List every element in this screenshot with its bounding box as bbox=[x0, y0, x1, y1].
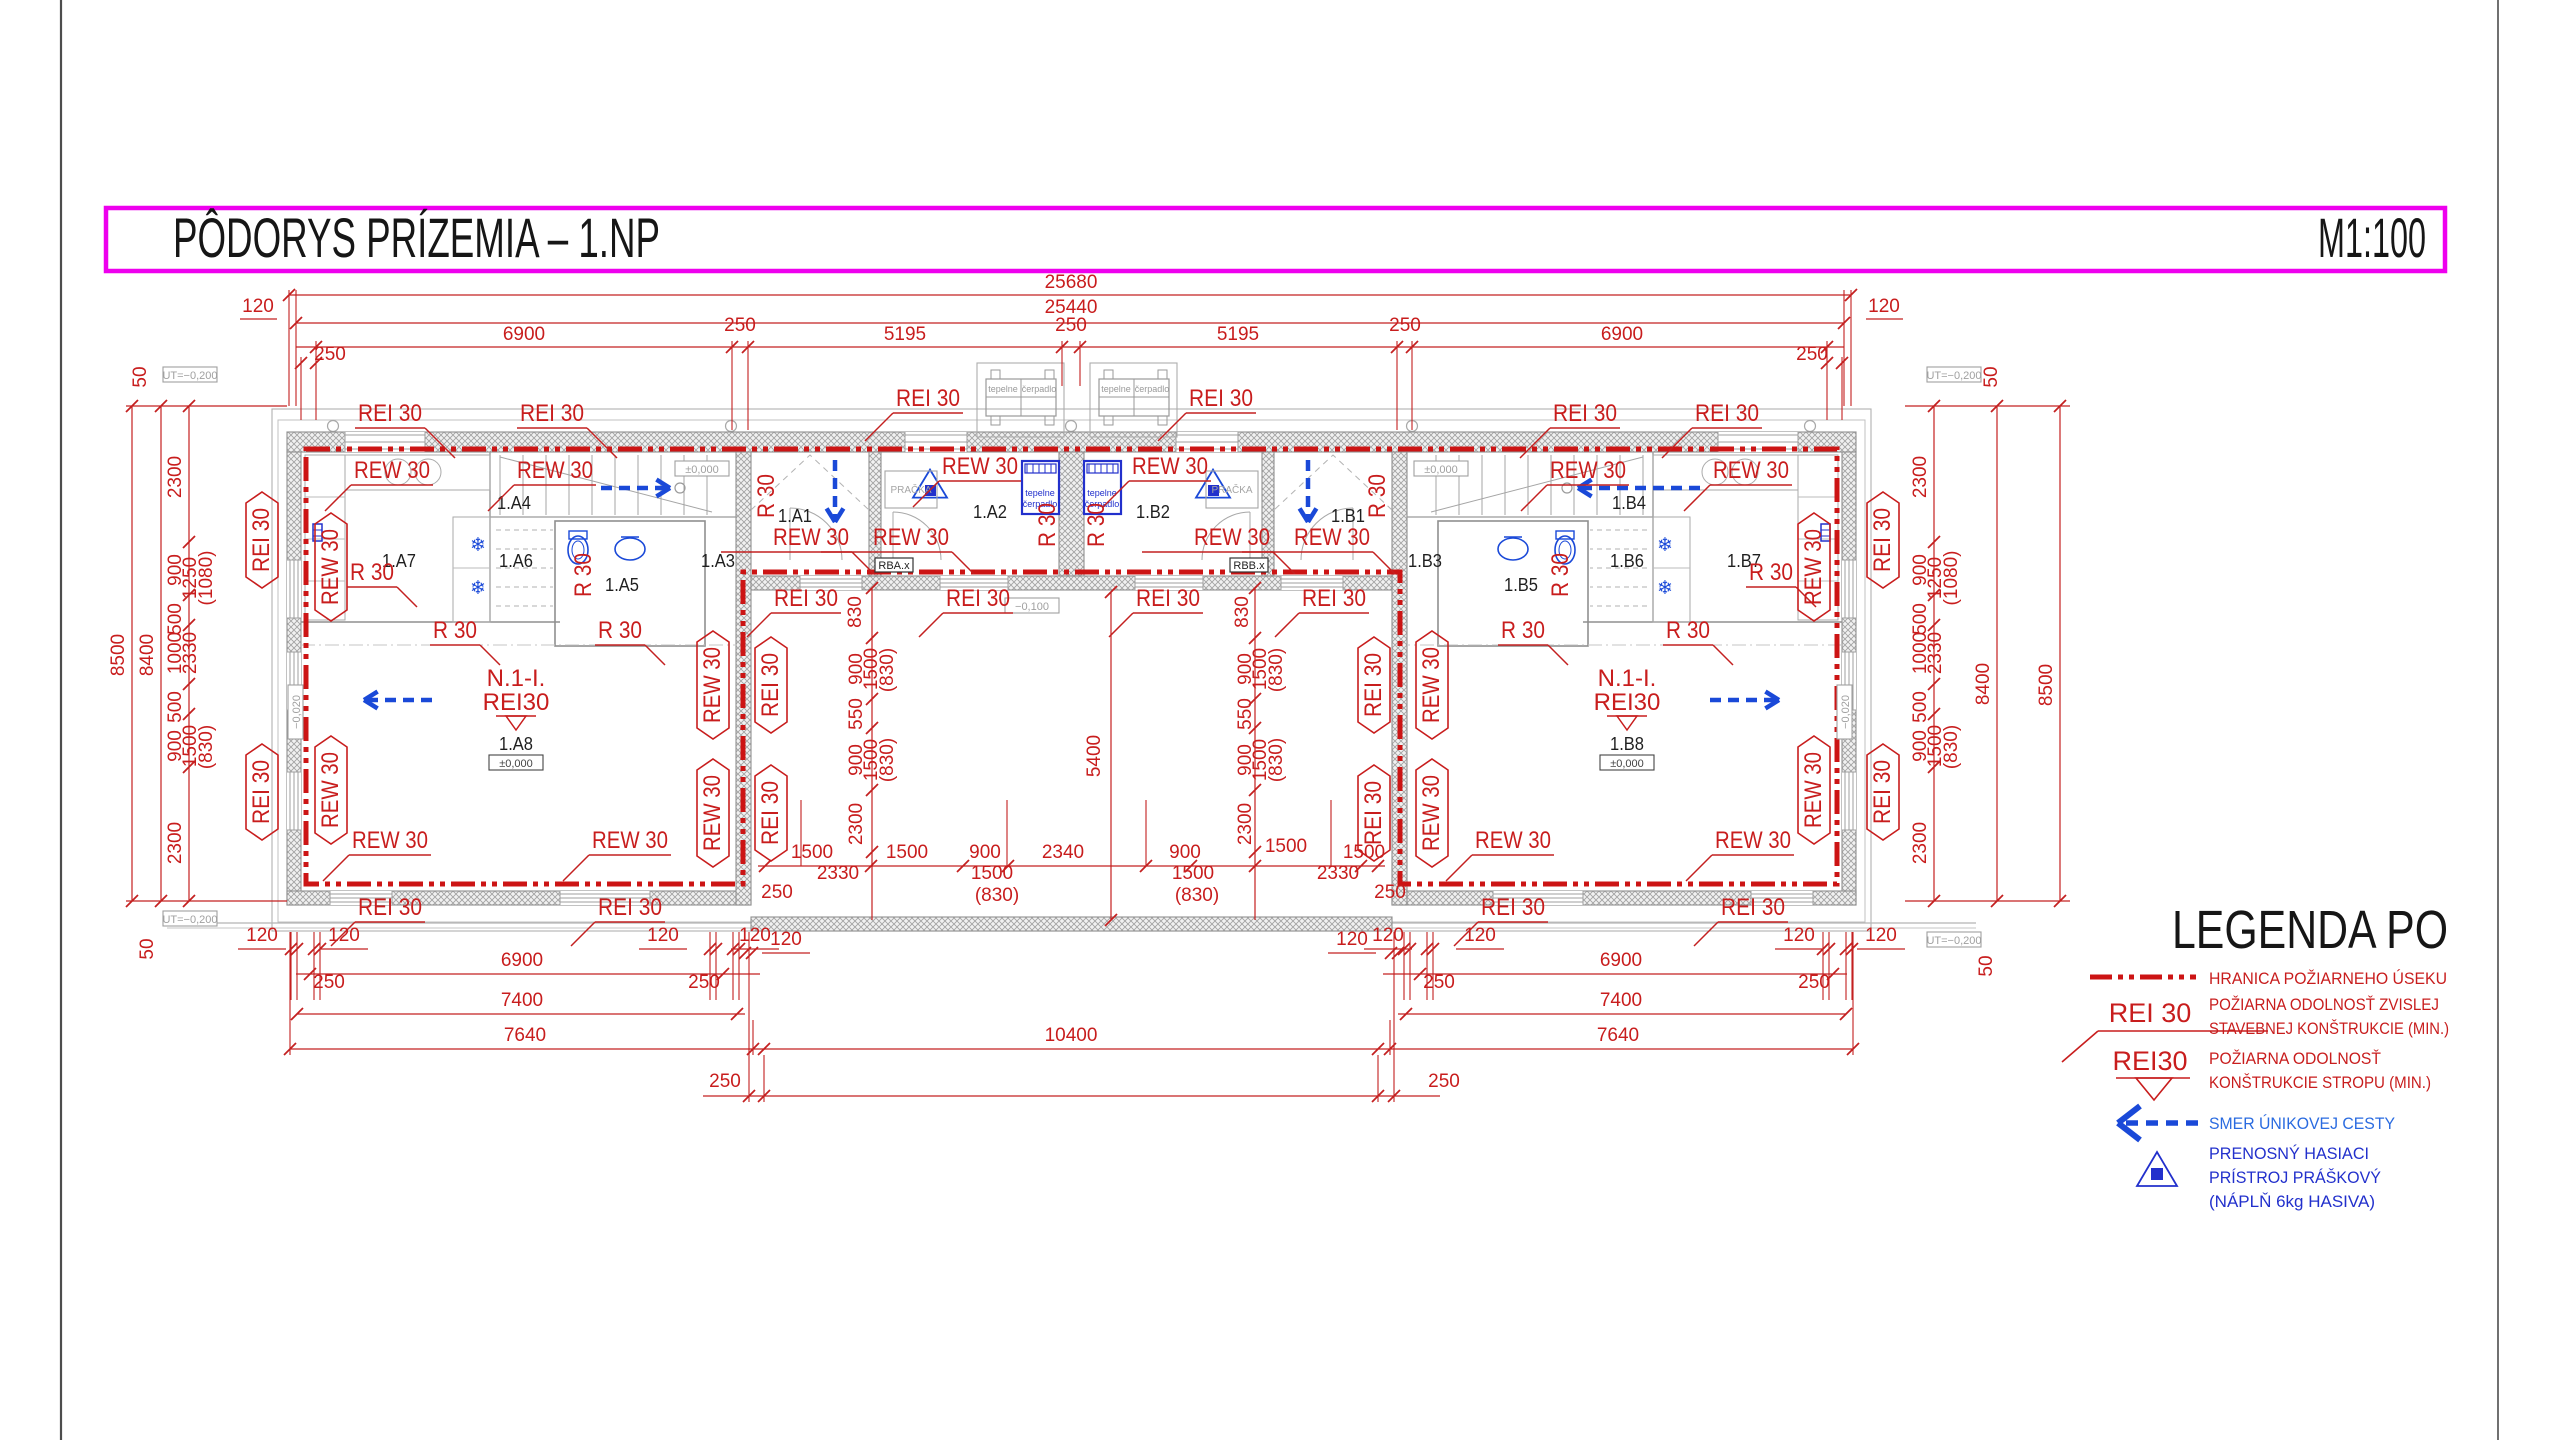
svg-text:PRAČKA: PRAČKA bbox=[1211, 483, 1252, 496]
svg-text:8400: 8400 bbox=[1973, 663, 1994, 705]
svg-text:1.B1: 1.B1 bbox=[1331, 506, 1365, 526]
svg-text:2300: 2300 bbox=[1910, 822, 1931, 864]
level box entry A rotated bbox=[288, 685, 303, 739]
svg-text:REI 30: REI 30 bbox=[248, 508, 275, 572]
svg-text:REI 30: REI 30 bbox=[358, 400, 422, 427]
washbasin (blue) bbox=[1498, 538, 1528, 560]
extinguisher symbol bbox=[913, 470, 947, 498]
svg-text:(830): (830) bbox=[196, 725, 217, 769]
svg-text:REI30: REI30 bbox=[1594, 689, 1661, 716]
unit A south windows bbox=[330, 891, 392, 905]
svg-text:1.A3: 1.A3 bbox=[701, 551, 735, 571]
svg-text:250: 250 bbox=[314, 344, 346, 365]
svg-text:250: 250 bbox=[761, 882, 793, 903]
fire compartment boundary (dash-dot-dot) bbox=[306, 449, 1837, 884]
svg-text:250: 250 bbox=[1798, 972, 1830, 993]
RBA.x box bbox=[875, 558, 913, 572]
door arc 1.B2 bbox=[1202, 512, 1250, 560]
svg-text:−0,020: −0,020 bbox=[291, 695, 303, 729]
svg-text:R 30: R 30 bbox=[1501, 617, 1545, 644]
svg-text:550: 550 bbox=[1235, 698, 1256, 730]
svg-text:REI 30: REI 30 bbox=[1869, 760, 1896, 824]
partition 1.A1 | 1.A2 bbox=[869, 452, 881, 576]
svg-text:250: 250 bbox=[313, 972, 345, 993]
svg-text:UT=−0,200: UT=−0,200 bbox=[1926, 935, 1981, 947]
svg-text:REW 30: REW 30 bbox=[1800, 752, 1827, 828]
svg-text:10400: 10400 bbox=[1045, 1025, 1098, 1046]
svg-text:REW 30: REW 30 bbox=[1715, 827, 1791, 854]
kitchen tall unit bbox=[305, 455, 345, 620]
svg-text:1500: 1500 bbox=[791, 842, 833, 863]
svg-text:REW 30: REW 30 bbox=[699, 647, 726, 723]
svg-text:REI30: REI30 bbox=[2112, 1046, 2187, 1076]
svg-text:RBA.x: RBA.x bbox=[878, 560, 910, 572]
svg-text:500: 500 bbox=[1910, 691, 1931, 723]
bottom wall unit B bbox=[1392, 891, 1856, 905]
svg-text:REW 30: REW 30 bbox=[317, 752, 344, 828]
right exterior wall bbox=[1842, 452, 1856, 905]
svg-text:N.1-I.: N.1-I. bbox=[1598, 665, 1657, 692]
svg-text:REI 30: REI 30 bbox=[757, 781, 784, 845]
svg-text:1.B3: 1.B3 bbox=[1408, 551, 1442, 571]
legend item 4: escape route bbox=[2124, 1120, 2198, 1126]
escape arrow living B bbox=[1710, 698, 1779, 703]
svg-text:120: 120 bbox=[246, 925, 278, 946]
svg-text:250: 250 bbox=[1389, 315, 1421, 336]
right page border line bbox=[2497, 0, 2499, 1440]
door arc 1.B1 bbox=[1301, 508, 1353, 560]
svg-text:REI 30: REI 30 bbox=[248, 760, 275, 824]
svg-text:REI 30: REI 30 bbox=[1553, 400, 1617, 427]
wall between unit A and middle bbox=[736, 452, 751, 905]
svg-text:2330: 2330 bbox=[1317, 863, 1359, 884]
svg-text:830: 830 bbox=[845, 596, 866, 628]
svg-text:8500: 8500 bbox=[2036, 664, 2057, 706]
svg-text:REI 30: REI 30 bbox=[1136, 585, 1200, 612]
svg-text:PRENOSNÝ HASIACI: PRENOSNÝ HASIACI bbox=[2209, 1144, 2369, 1163]
door arc 1.A2 bbox=[893, 512, 941, 560]
svg-text:1500: 1500 bbox=[971, 863, 1013, 884]
level box entry B rotated bbox=[1837, 685, 1852, 739]
middle south wall doors bbox=[800, 576, 862, 590]
svg-text:−0,100: −0,100 bbox=[1015, 601, 1049, 613]
living room axis dashline bbox=[1407, 644, 1842, 646]
svg-text:2330: 2330 bbox=[180, 632, 201, 674]
escape arrow 1.A1 down bbox=[833, 460, 838, 522]
top wall windows bbox=[345, 432, 425, 452]
svg-text:(NÁPLŇ 6kg HASIVA): (NÁPLŇ 6kg HASIVA) bbox=[2209, 1192, 2375, 1211]
extinguisher symbol bbox=[1196, 470, 1230, 498]
svg-text:1.B2: 1.B2 bbox=[1136, 502, 1170, 522]
svg-text:R 30: R 30 bbox=[753, 474, 780, 518]
kitchen counter + sink bbox=[1653, 455, 1798, 490]
svg-text:50: 50 bbox=[1981, 366, 2002, 387]
svg-text:HRANICA POŽIARNEHO ÚSEKU: HRANICA POŽIARNEHO ÚSEKU bbox=[2209, 969, 2447, 988]
svg-text:6900: 6900 bbox=[501, 950, 543, 971]
svg-text:REI 30: REI 30 bbox=[774, 585, 838, 612]
svg-text:REW 30: REW 30 bbox=[873, 524, 949, 551]
svg-text:REI 30: REI 30 bbox=[1360, 653, 1387, 717]
svg-text:250: 250 bbox=[1796, 344, 1828, 365]
svg-text:REI 30: REI 30 bbox=[598, 894, 662, 921]
fridge box bbox=[453, 517, 490, 622]
svg-text:830: 830 bbox=[1232, 596, 1253, 628]
fridge box bbox=[1653, 517, 1690, 622]
dim 10400 bbox=[764, 1048, 1378, 1050]
svg-text:1500: 1500 bbox=[1265, 836, 1307, 857]
kitchen counter + sink bbox=[345, 455, 490, 490]
svg-text:900: 900 bbox=[969, 842, 1001, 863]
svg-text:2300: 2300 bbox=[846, 803, 867, 845]
wall between unit B and middle bbox=[1392, 452, 1407, 905]
svg-text:REW 30: REW 30 bbox=[354, 457, 430, 484]
svg-text:50: 50 bbox=[137, 938, 158, 959]
svg-text:120: 120 bbox=[1336, 929, 1368, 950]
toilet (blue) bbox=[568, 536, 588, 564]
svg-text:REI 30: REI 30 bbox=[358, 894, 422, 921]
svg-text:R 30: R 30 bbox=[598, 617, 642, 644]
svg-text:2340: 2340 bbox=[1042, 842, 1084, 863]
heat pump pad bbox=[977, 363, 1064, 437]
svg-text:tepelne: tepelne bbox=[1087, 488, 1117, 498]
svg-text:500: 500 bbox=[165, 691, 186, 723]
electric panel A (blue) bbox=[313, 524, 322, 541]
svg-text:REW 30: REW 30 bbox=[942, 453, 1018, 480]
left page border line bbox=[60, 0, 62, 1440]
svg-text:(830): (830) bbox=[1175, 885, 1219, 906]
svg-text:±0,000: ±0,000 bbox=[499, 758, 533, 770]
terrace edge full width bbox=[167, 922, 1976, 924]
svg-text:7400: 7400 bbox=[501, 990, 543, 1011]
bathroom box bbox=[555, 521, 705, 646]
level box stairs A bbox=[675, 461, 729, 476]
central party wall bbox=[1059, 452, 1084, 576]
svg-text:5195: 5195 bbox=[1217, 324, 1259, 345]
svg-text:±0,000: ±0,000 bbox=[1424, 464, 1458, 476]
svg-text:REW 30: REW 30 bbox=[352, 827, 428, 854]
svg-text:N.1-I.: N.1-I. bbox=[487, 665, 546, 692]
svg-text:2300: 2300 bbox=[165, 822, 186, 864]
svg-text:REW 30: REW 30 bbox=[1294, 524, 1370, 551]
svg-text:tepelne: tepelne bbox=[1025, 488, 1055, 498]
svg-text:120: 120 bbox=[770, 929, 802, 950]
svg-text:SMER ÚNIKOVEJ CESTY: SMER ÚNIKOVEJ CESTY bbox=[2209, 1114, 2395, 1133]
svg-text:1.A1: 1.A1 bbox=[778, 506, 812, 526]
svg-text:❄: ❄ bbox=[470, 535, 486, 556]
UT boxes right bbox=[1927, 367, 1981, 382]
RBB.x box bbox=[1230, 558, 1268, 572]
svg-text:6900: 6900 bbox=[1600, 950, 1642, 971]
svg-text:M1:100: M1:100 bbox=[2318, 206, 2426, 269]
courtyard bottom wall bbox=[751, 917, 1392, 931]
svg-text:−0,020: −0,020 bbox=[1840, 695, 1852, 729]
courtyard side dim columns bbox=[871, 588, 873, 920]
svg-text:1500: 1500 bbox=[1172, 863, 1214, 884]
stair lower flight bbox=[1590, 529, 1647, 531]
svg-text:5195: 5195 bbox=[884, 324, 926, 345]
svg-text:50: 50 bbox=[130, 366, 151, 387]
svg-text:1.B6: 1.B6 bbox=[1610, 551, 1644, 571]
svg-text:6900: 6900 bbox=[503, 324, 545, 345]
svg-text:REW 30: REW 30 bbox=[1132, 453, 1208, 480]
living room axis dashline bbox=[301, 644, 736, 646]
left exterior wall bbox=[287, 452, 301, 905]
svg-text:8500: 8500 bbox=[108, 634, 129, 676]
svg-text:2300: 2300 bbox=[1235, 803, 1256, 845]
roof overhang outline bbox=[272, 409, 1871, 931]
svg-text:(830): (830) bbox=[1941, 725, 1962, 769]
svg-text:1.B4: 1.B4 bbox=[1612, 493, 1646, 513]
svg-text:250: 250 bbox=[724, 315, 756, 336]
svg-text:R 30: R 30 bbox=[570, 553, 597, 597]
svg-text:2300: 2300 bbox=[1910, 456, 1931, 498]
svg-text:1.A6: 1.A6 bbox=[499, 551, 533, 571]
svg-text:7400: 7400 bbox=[1600, 990, 1642, 1011]
middle rooms south wall bbox=[751, 576, 1392, 590]
level box stairs B bbox=[1414, 461, 1468, 476]
partition 1.B1 | 1.B2 bbox=[1262, 452, 1274, 576]
svg-text:6900: 6900 bbox=[1601, 324, 1643, 345]
svg-text:R 30: R 30 bbox=[1666, 617, 1710, 644]
stair lower flight bbox=[496, 529, 553, 531]
level box living B bbox=[1600, 755, 1654, 770]
escape arrow stairs A bbox=[601, 486, 670, 491]
svg-text:120: 120 bbox=[1464, 925, 1496, 946]
svg-text:REI 30: REI 30 bbox=[946, 585, 1010, 612]
svg-text:250: 250 bbox=[688, 972, 720, 993]
svg-text:5400: 5400 bbox=[1084, 735, 1105, 777]
indoor heat pump unit (blue) bbox=[1022, 461, 1059, 514]
top exterior wall bbox=[287, 432, 1856, 452]
svg-text:čerpadlo: čerpadlo bbox=[1022, 384, 1057, 394]
stairs treads bbox=[1642, 455, 1644, 515]
svg-text:120: 120 bbox=[1783, 925, 1815, 946]
svg-text:R 30: R 30 bbox=[1083, 503, 1110, 547]
svg-text:2330: 2330 bbox=[817, 863, 859, 884]
svg-text:POŽIARNA ODOLNOSŤ ZVISLEJ: POŽIARNA ODOLNOSŤ ZVISLEJ bbox=[2209, 995, 2439, 1014]
svg-text:500: 500 bbox=[1910, 603, 1931, 635]
svg-text:±0,000: ±0,000 bbox=[1610, 758, 1644, 770]
svg-text:120: 120 bbox=[242, 296, 274, 317]
svg-text:tepelne: tepelne bbox=[1101, 384, 1131, 394]
svg-text:(830): (830) bbox=[1266, 648, 1287, 692]
indoor heat pump unit (blue) bbox=[1084, 461, 1121, 514]
svg-text:1.A5: 1.A5 bbox=[605, 575, 639, 595]
svg-text:❄: ❄ bbox=[1657, 578, 1673, 599]
svg-text:120: 120 bbox=[328, 925, 360, 946]
svg-text:REW 30: REW 30 bbox=[1550, 457, 1626, 484]
kitchen tall unit bbox=[1798, 455, 1838, 620]
svg-text:tepelne: tepelne bbox=[988, 384, 1018, 394]
svg-text:REI 30: REI 30 bbox=[1189, 385, 1253, 412]
svg-text:REI 30: REI 30 bbox=[1302, 585, 1366, 612]
svg-text:STAVEBNEJ KONŠTRUKCIE (MIN.): STAVEBNEJ KONŠTRUKCIE (MIN.) bbox=[2209, 1019, 2449, 1038]
svg-text:REI 30: REI 30 bbox=[1481, 894, 1545, 921]
svg-text:(830): (830) bbox=[975, 885, 1019, 906]
stairs treads bbox=[499, 455, 501, 515]
title box bbox=[106, 208, 2445, 271]
svg-text:REI 30: REI 30 bbox=[757, 653, 784, 717]
svg-text:UT=−0,200: UT=−0,200 bbox=[162, 370, 217, 382]
svg-text:REI 30: REI 30 bbox=[520, 400, 584, 427]
level box living A bbox=[489, 755, 543, 770]
right dim stack bbox=[1905, 405, 2070, 407]
svg-text:UT=−0,200: UT=−0,200 bbox=[1926, 370, 1981, 382]
svg-text:250: 250 bbox=[709, 1071, 741, 1092]
svg-text:1500: 1500 bbox=[886, 842, 928, 863]
heat pump pad bbox=[1090, 363, 1177, 437]
svg-text:50: 50 bbox=[1976, 955, 1997, 976]
svg-text:POŽIARNA ODOLNOSŤ: POŽIARNA ODOLNOSŤ bbox=[2209, 1049, 2381, 1068]
svg-text:REW 30: REW 30 bbox=[317, 529, 344, 605]
escape arrow living A bbox=[364, 698, 432, 703]
legend item 1: boundary line sample bbox=[2090, 975, 2196, 980]
svg-text:PÔDORYS PRÍZEMIA – 1.NP: PÔDORYS PRÍZEMIA – 1.NP bbox=[173, 206, 660, 269]
unit B south windows bbox=[1751, 891, 1813, 905]
svg-text:25680: 25680 bbox=[1045, 272, 1098, 293]
interior partitions unit B bbox=[1583, 621, 1842, 623]
svg-text:REW 30: REW 30 bbox=[773, 524, 849, 551]
interior partitions unit A bbox=[301, 621, 560, 623]
svg-text:500: 500 bbox=[165, 603, 186, 635]
svg-text:REI30: REI30 bbox=[483, 689, 550, 716]
washing machine A bbox=[885, 471, 937, 508]
electric panel B (blue) bbox=[1821, 524, 1830, 541]
svg-text:REI 30: REI 30 bbox=[1360, 781, 1387, 845]
svg-text:250: 250 bbox=[1055, 315, 1087, 336]
svg-text:REI 30: REI 30 bbox=[2109, 998, 2192, 1028]
svg-text:LEGENDA PO: LEGENDA PO bbox=[2172, 900, 2448, 960]
svg-text:REW 30: REW 30 bbox=[1194, 524, 1270, 551]
svg-text:250: 250 bbox=[1423, 972, 1455, 993]
left dim stack bbox=[126, 405, 287, 407]
washing machine B bbox=[1206, 471, 1258, 508]
UT boxes left bbox=[163, 367, 217, 382]
svg-text:KONŠTRUKCIE STROPU (MIN.): KONŠTRUKCIE STROPU (MIN.) bbox=[2209, 1073, 2431, 1092]
svg-text:120: 120 bbox=[1865, 925, 1897, 946]
right wall door+windows bbox=[1842, 560, 1856, 618]
washbasin (blue) bbox=[615, 538, 645, 560]
svg-text:(1080): (1080) bbox=[196, 551, 217, 606]
porch 1.A1 canopy bbox=[751, 455, 869, 510]
dim row 250-250 courtyard bbox=[749, 1095, 1394, 1097]
svg-text:250: 250 bbox=[1428, 1071, 1460, 1092]
svg-text:R 30: R 30 bbox=[433, 617, 477, 644]
svg-text:RBB.x: RBB.x bbox=[1233, 560, 1265, 572]
svg-text:8400: 8400 bbox=[137, 634, 158, 676]
porch 1.B1 canopy bbox=[1274, 455, 1392, 510]
svg-text:R 30: R 30 bbox=[1749, 559, 1793, 586]
svg-text:(830): (830) bbox=[877, 648, 898, 692]
svg-text:2300: 2300 bbox=[165, 456, 186, 498]
svg-text:❄: ❄ bbox=[470, 578, 486, 599]
escape arrow 1.B1 down bbox=[1306, 460, 1311, 522]
door arc 1.A1 bbox=[790, 508, 842, 560]
svg-text:REI 30: REI 30 bbox=[1695, 400, 1759, 427]
svg-text:120: 120 bbox=[1868, 296, 1900, 317]
svg-text:REW 30: REW 30 bbox=[1418, 647, 1445, 723]
dim row 25440 bbox=[296, 322, 1844, 324]
svg-text:900: 900 bbox=[1169, 842, 1201, 863]
svg-text:PRÍSTROJ PRÁŠKOVÝ: PRÍSTROJ PRÁŠKOVÝ bbox=[2209, 1168, 2381, 1187]
svg-text:REW 30: REW 30 bbox=[517, 457, 593, 484]
svg-text:REW 30: REW 30 bbox=[1713, 457, 1789, 484]
svg-text:REW 30: REW 30 bbox=[1800, 529, 1827, 605]
svg-text:120: 120 bbox=[647, 925, 679, 946]
courtyard witness verticals bbox=[800, 800, 802, 866]
svg-text:❄: ❄ bbox=[1657, 535, 1673, 556]
svg-text:R 30: R 30 bbox=[1547, 553, 1574, 597]
svg-text:REW 30: REW 30 bbox=[699, 775, 726, 851]
level box courtyard bbox=[1005, 598, 1059, 613]
svg-text:čerpadlo: čerpadlo bbox=[1135, 384, 1170, 394]
legend item 5: extinguisher bbox=[2137, 1152, 2177, 1186]
svg-text:REW 30: REW 30 bbox=[1418, 775, 1445, 851]
svg-text:1.A2: 1.A2 bbox=[973, 502, 1007, 522]
bottom wall unit A bbox=[287, 891, 751, 905]
svg-text:(1080): (1080) bbox=[1941, 551, 1962, 606]
svg-text:7640: 7640 bbox=[504, 1025, 546, 1046]
svg-text:UT=−0,200: UT=−0,200 bbox=[162, 914, 217, 926]
courtyard window dim row bbox=[758, 865, 1385, 867]
svg-text:1500: 1500 bbox=[1343, 842, 1385, 863]
svg-text:R 30: R 30 bbox=[1034, 503, 1061, 547]
svg-text:1.B8: 1.B8 bbox=[1610, 734, 1644, 754]
svg-text:250: 250 bbox=[1374, 882, 1406, 903]
svg-text:±0,000: ±0,000 bbox=[685, 464, 719, 476]
courtyard 5400 line bbox=[1110, 592, 1112, 920]
escape arrow stairs B bbox=[1578, 486, 1700, 491]
svg-text:REW 30: REW 30 bbox=[1475, 827, 1551, 854]
svg-text:REW 30: REW 30 bbox=[592, 827, 668, 854]
svg-text:R 30: R 30 bbox=[350, 559, 394, 586]
svg-text:REI 30: REI 30 bbox=[1721, 894, 1785, 921]
svg-text:1.A8: 1.A8 bbox=[499, 734, 533, 754]
bathroom box bbox=[1438, 521, 1588, 646]
witness lines top bbox=[288, 290, 290, 406]
svg-text:550: 550 bbox=[846, 698, 867, 730]
svg-text:R 30: R 30 bbox=[1364, 474, 1391, 518]
svg-text:(830): (830) bbox=[1266, 738, 1287, 782]
svg-text:120: 120 bbox=[1372, 925, 1404, 946]
svg-text:7640: 7640 bbox=[1597, 1025, 1639, 1046]
svg-text:(830): (830) bbox=[877, 738, 898, 782]
gutter circles bbox=[328, 421, 339, 432]
svg-text:2330: 2330 bbox=[1925, 632, 1946, 674]
svg-text:1.B5: 1.B5 bbox=[1504, 575, 1538, 595]
toilet (blue) bbox=[1555, 536, 1575, 564]
left wall door+windows bbox=[287, 560, 301, 618]
svg-text:REI 30: REI 30 bbox=[896, 385, 960, 412]
dim row 25680 bbox=[289, 294, 1851, 296]
svg-text:REI 30: REI 30 bbox=[1869, 508, 1896, 572]
dim row 6900/250/5195 bbox=[296, 346, 1844, 348]
